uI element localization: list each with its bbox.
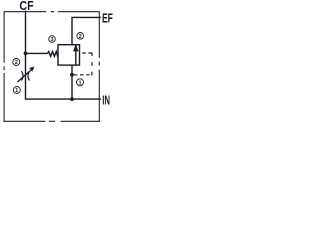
- valve body U1 (pressure compensator square): [58, 45, 80, 65]
- wire spring branch horizontal: [26, 52, 48, 54]
- adjustment arrow through orifice: [17, 67, 34, 82]
- balloon 2 (left of orifice): [13, 59, 20, 67]
- variable orifice arcs on CF line: [22, 71, 30, 80]
- svg-text:EF: EF: [102, 10, 113, 25]
- cartridge envelope top: [4, 11, 99, 13]
- svg-text:IN: IN: [102, 92, 110, 107]
- svg-text:CF: CF: [19, 0, 33, 13]
- wire EF: valve top up and right to EF label: [72, 17, 101, 44]
- junction dot below valve (pilot tap): [70, 73, 74, 77]
- svg-text:2: 2: [15, 60, 18, 66]
- svg-text:1: 1: [78, 80, 81, 86]
- svg-text:3: 3: [50, 37, 53, 43]
- cartridge envelope left: [3, 11, 5, 122]
- junction dot on IN line: [70, 97, 74, 101]
- flow arrow inside valve: [73, 44, 78, 65]
- wire valve bottom port down to IN line: [71, 65, 73, 99]
- balloon 3 (above spring): [49, 36, 56, 43]
- svg-text:2: 2: [79, 34, 82, 40]
- balloon 2 (top right, near EF line): [77, 33, 84, 40]
- pilot line (dashed) from tap right, up, into valve right side: [74, 74, 92, 76]
- junction dot at spring branch: [24, 52, 28, 56]
- wire CF vertical from CF label to junction: [25, 11, 27, 54]
- cartridge envelope right: [98, 11, 100, 121]
- wire CF vertical junction to orifice to bottom corner, then IN line to right: [26, 53, 100, 99]
- spring (zigzag): [47, 52, 58, 57]
- cartridge envelope bottom: [4, 120, 100, 122]
- balloon 1 (below orifice): [13, 87, 20, 95]
- wire IN tick past envelope: [99, 98, 101, 100]
- svg-text:1: 1: [15, 88, 18, 94]
- balloon 1 (right, near pilot line): [77, 79, 84, 87]
